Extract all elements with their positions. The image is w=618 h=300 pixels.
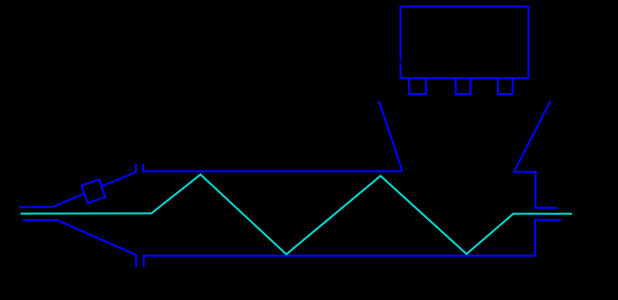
input taper bottom wall — [23, 220, 136, 267]
input taper top wall — [19, 164, 136, 207]
pin 2 — [456, 78, 471, 94]
waveguide bottom wall — [144, 220, 561, 267]
pin 1 — [409, 78, 426, 94]
beam path — [21, 175, 573, 255]
horn right wall and output stub — [514, 101, 557, 208]
waveguide top wall — [143, 164, 403, 171]
device package U1 body — [401, 7, 529, 79]
horn left wall — [379, 101, 403, 171]
modulator M1 — [81, 179, 105, 203]
pin 3 — [498, 78, 513, 94]
